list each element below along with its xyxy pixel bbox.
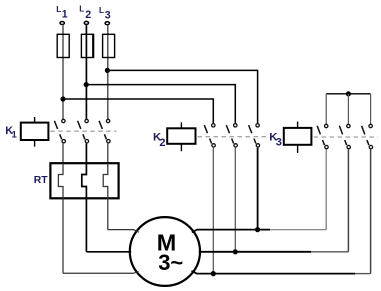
contact K1-1 bottom pin [62,140,65,143]
contact K2-2 bottom pin [234,144,237,147]
contactor coil K1 terminal stubs [34,117,36,123]
motor M circle [130,217,200,286]
svg-text:2: 2 [85,9,91,21]
wire feed L2 to contact K2-2 [86,85,235,124]
contactor coil K2 [167,128,195,144]
wire K1-2 to RT [85,144,87,164]
wire row 3 (light part) [355,273,371,275]
fuse F2 [81,34,93,57]
wire L2 terminal to contact K1-2 [85,25,87,119]
heater RT-2 and wire to motor V1 [82,163,87,252]
wire feed L3 to contact K2-3 [107,70,257,123]
contact K3-3 top pin [369,124,372,127]
contact K1-2 top pin [85,119,88,122]
contact K3-3 bottom pin [369,145,372,148]
wire motor terminal W1 (top-left) [108,230,139,233]
contact K1-1 blade [54,121,57,129]
contact K1-3 blade [99,121,102,129]
wire star bus to K3-2 [347,94,349,124]
wire K2-1 to bottom row 3 [212,148,214,274]
svg-text:3: 3 [276,137,282,149]
contact K3-1 blade [317,126,320,135]
wire L3 terminal to contact K1-3 [107,25,109,119]
wire feed L1 to contact K2-1 [63,99,213,123]
wire row 1 (light part) [270,229,326,231]
contact K3-2 top pin [347,124,350,127]
wire row 2 motor V2 to K3-2 (dark part) [199,251,311,253]
junction dot row 2 [233,249,238,254]
wire motor terminal V1 (mid-left) [86,251,131,253]
wire star bus to K3-1 [325,94,327,124]
contact K3-1 top pin [325,124,328,127]
svg-text:RT: RT [34,175,49,186]
contact K2-1 bottom pin [212,144,215,147]
wire motor terminal U1 (bot-left) [63,271,139,273]
thermal relay RT box [50,163,118,198]
terminal L2 [84,21,88,24]
wire row 2 (light part) [311,251,348,253]
contact K1-3 top pin [106,119,109,122]
wire K3-2 to row 2 [347,149,349,251]
contact K2-2 top pin [234,124,237,127]
heater RT-3 and wire to motor W1 [103,163,108,229]
contact K3-2 bottom pin [347,145,350,148]
wire K3-1 to row 1 [325,149,327,229]
contact K3-2 blade [339,126,342,135]
contactor coil K3 [284,128,312,145]
wire K1-1 to RT [62,144,64,164]
wire star bus [326,93,370,95]
contactor coil K3 terminal stubs [297,122,299,128]
svg-text:L: L [99,6,104,15]
junction dot on L3 feed [105,68,110,73]
junction dot on L1 feed [60,96,65,101]
contact K3-1 bottom pin [325,145,328,148]
junction dot star point [346,91,351,96]
junction dot on L2 feed [84,82,89,87]
wire star bus to K3-3 [370,94,372,124]
linkage dashed line K3 [314,136,379,138]
svg-text:3~: 3~ [158,250,183,275]
fuse F3 [103,34,115,57]
contact K2-1 blade [204,125,207,133]
contact K2-3 top pin [256,124,259,127]
contact K1-2 bottom pin [85,140,88,143]
contactor coil K2 terminal stubs [180,122,182,128]
fuse F1 [57,34,69,57]
contact K2-2 blade [226,125,229,133]
wire K1-3 to RT [107,144,109,164]
svg-text:2: 2 [159,137,165,149]
contact K1-3 bottom pin [107,140,110,143]
contact K2-3 blade [249,125,252,133]
contact K1-1 top pin [62,119,65,122]
junction dot row 1 [255,227,260,232]
wire K3-3 to row 3 [370,149,372,273]
terminal L1 [60,22,64,25]
wire K2-3 to bottom row 1 [257,148,259,230]
svg-text:L: L [79,5,84,14]
wire row 3 motor U2 to K3-3 (dark part) [192,271,356,274]
linkage dashed line K1 [50,130,116,132]
contact K1-2 blade [78,121,81,129]
contact K3-3 blade [362,126,365,135]
linkage dashed line K2 [198,136,267,138]
wire L1 terminal to contact K1-1 [62,25,64,119]
svg-text:1: 1 [12,129,17,139]
svg-text:1: 1 [62,9,68,21]
svg-text:3: 3 [105,9,111,21]
svg-text:L: L [56,5,61,14]
contact K2-3 bottom pin [256,144,259,147]
heater RT-1 and wire to motor U1 [58,163,63,273]
wire K2-2 to bottom row 2 [234,148,236,252]
contactor coil K1 [21,123,49,140]
contact K2-1 top pin [212,124,215,127]
terminal L3 [105,22,109,25]
wire row 1 motor W2 to K3-1 (dark part) [192,230,270,233]
junction dot row 3 [211,271,216,276]
